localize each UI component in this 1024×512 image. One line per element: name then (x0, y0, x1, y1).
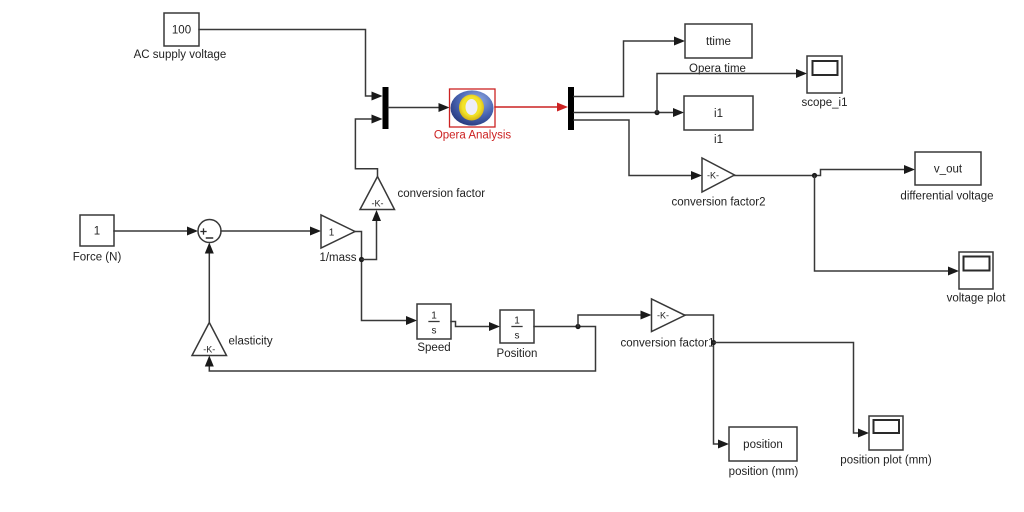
Speed integrator block (417, 304, 451, 354)
Opera Analysis block U1 (434, 89, 512, 142)
gain elasticity (points up) (192, 323, 273, 356)
wire junction up to conversion factor (362, 210, 382, 260)
svg-text:-K-: -K- (372, 199, 384, 209)
position plot scope block (840, 416, 932, 467)
constant block 100 (AC supply voltage) (134, 13, 227, 61)
svg-text:conversion factor: conversion factor (398, 188, 486, 200)
svg-text:-K-: -K- (203, 345, 215, 355)
svg-text:voltage plot: voltage plot (947, 293, 1007, 305)
svg-text:i1: i1 (714, 108, 723, 120)
svg-text:1: 1 (431, 311, 437, 322)
wire demux out3 to conversion factor2 (574, 120, 702, 180)
svg-text:v_out: v_out (934, 164, 963, 176)
svg-text:i1: i1 (714, 134, 723, 146)
svg-text:Speed: Speed (417, 342, 450, 354)
gain conversion factor2 (672, 158, 766, 209)
wire junction to position plot (714, 343, 870, 438)
junction node on i1 wire (654, 110, 659, 115)
svg-text:conversion factor1: conversion factor1 (621, 338, 715, 350)
svg-text:conversion factor2: conversion factor2 (672, 197, 766, 209)
svg-text:1: 1 (94, 226, 100, 238)
svg-text:AC supply voltage: AC supply voltage (134, 49, 227, 61)
wire Force to sum (114, 227, 198, 236)
demux block (568, 87, 574, 130)
position block (To Workspace) (729, 427, 799, 478)
svg-text:Opera Analysis: Opera Analysis (434, 130, 512, 142)
scope_i1 scope block (801, 56, 847, 109)
wire junction down to voltage plot (815, 176, 960, 276)
v_out block (To Workspace) (900, 152, 993, 203)
Position integrator block (497, 310, 538, 360)
Force (N) constant block (73, 215, 122, 264)
ttime block (To Workspace) (685, 24, 752, 75)
svg-text:elasticity: elasticity (229, 336, 273, 348)
gain 1/mass (319, 215, 356, 264)
svg-text:1/mass: 1/mass (319, 252, 356, 264)
wire Speed to Position (451, 322, 500, 332)
junction node on 1/mass wire (359, 257, 364, 262)
svg-text:1: 1 (514, 316, 520, 327)
svg-text:-K-: -K- (657, 311, 669, 321)
wire sum to 1/mass (221, 227, 321, 236)
svg-text:100: 100 (172, 25, 191, 37)
voltage plot scope block (947, 252, 1007, 305)
svg-text:-K-: -K- (707, 171, 719, 181)
gain conversion factor1 (621, 299, 715, 350)
wire Position output feedback to elasticity (205, 327, 596, 372)
svg-text:scope_i1: scope_i1 (801, 97, 847, 109)
junction node on position wire (711, 340, 716, 345)
svg-text:Force (N): Force (N) (73, 252, 122, 264)
svg-text:s: s (515, 331, 520, 342)
i1 block (To Workspace) (684, 96, 753, 146)
junction node on v_out wire (812, 173, 817, 178)
svg-text:position: position (743, 439, 783, 451)
svg-text:position plot (mm): position plot (mm) (840, 455, 932, 467)
junction node on Position output (575, 324, 580, 329)
svg-text:1: 1 (329, 228, 335, 239)
wire mux output to Opera Analysis (389, 103, 450, 112)
svg-text:s: s (432, 326, 437, 337)
wire junction to conversion factor1 (578, 311, 652, 327)
wire conversion factor2 to v_out (735, 165, 916, 176)
wire junction to scope_i1 (657, 69, 807, 113)
mux block (383, 87, 389, 129)
svg-text:Position: Position (497, 348, 538, 360)
wire demux out1 to ttime (574, 37, 685, 97)
wire 1/mass down to Speed (355, 232, 417, 326)
wire from 100 block to mux input 1 (199, 30, 383, 101)
sum junction circle (198, 220, 221, 243)
wire elasticity up to sum (205, 243, 214, 323)
wire demux out2 to i1 (574, 108, 684, 117)
red wire Opera Analysis to demux (495, 103, 568, 112)
svg-text:ttime: ttime (706, 36, 731, 48)
wire conversion factor1 down to position block (685, 315, 729, 449)
wire from conversion factor to mux input 2 (355, 115, 382, 177)
svg-text:position (mm): position (mm) (729, 466, 799, 478)
gain conversion factor (points up) (360, 177, 485, 210)
svg-text:differential voltage: differential voltage (900, 191, 993, 203)
